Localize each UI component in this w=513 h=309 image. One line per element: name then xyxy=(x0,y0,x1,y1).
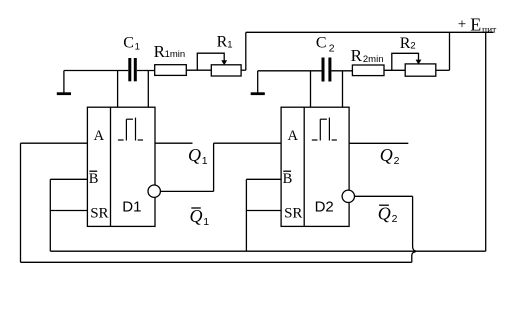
wire lower feedback line xyxy=(21,252,416,262)
capacitor C1 xyxy=(130,58,136,81)
wire +E rail right drop xyxy=(485,32,487,251)
R1 wiper arm xyxy=(197,53,227,70)
svg-text:Q: Q xyxy=(188,145,201,165)
svg-text:пит: пит xyxy=(482,25,497,35)
resistor R2 (rheostat) xyxy=(405,64,436,76)
label Q2 xyxy=(380,145,400,167)
pin D1 top-left xyxy=(117,71,119,108)
svg-text:Q: Q xyxy=(378,203,391,223)
wire outer left vertical xyxy=(20,143,22,262)
svg-text:1min: 1min xyxy=(165,49,186,60)
wire R2 to rail riser xyxy=(436,69,450,71)
wire +E power rail xyxy=(246,31,494,33)
svg-text:2min: 2min xyxy=(363,54,384,65)
pulse symbol D2 xyxy=(312,118,337,141)
pulse symbol D1 xyxy=(118,118,143,141)
wire SR input D2 xyxy=(246,210,281,212)
label Q2-bar xyxy=(378,203,398,225)
capacitor C2 xyxy=(323,58,330,82)
svg-text:B: B xyxy=(89,171,99,187)
svg-text:SR: SR xyxy=(284,205,302,221)
wire A input D1 xyxy=(21,142,88,144)
svg-text:A: A xyxy=(288,128,299,144)
wire C2 to R2min xyxy=(331,70,352,72)
wire C1 to R1min xyxy=(137,70,155,72)
svg-text:SR: SR xyxy=(90,205,108,221)
wire Q2-bar to junction xyxy=(355,196,417,251)
svg-text:Q: Q xyxy=(190,206,203,226)
wire Q1 output stub xyxy=(155,142,193,144)
wire R2min to R2 xyxy=(384,69,405,71)
label Q1 xyxy=(188,145,208,167)
ground GND2 xyxy=(251,71,265,94)
IC D1 block xyxy=(87,107,155,226)
wire upper feedback line xyxy=(50,250,485,252)
resistor R2min xyxy=(352,65,384,76)
svg-text:B: B xyxy=(283,171,293,187)
svg-text:1: 1 xyxy=(135,42,140,53)
wire riser to +E rail xyxy=(245,32,247,70)
svg-text:C: C xyxy=(123,34,134,51)
label B-bar (D1) xyxy=(89,171,99,187)
svg-text:D2: D2 xyxy=(315,199,334,216)
inverter bubble D1 xyxy=(148,185,160,197)
svg-text:R: R xyxy=(400,35,411,52)
label Q1-bar xyxy=(190,206,210,228)
IC D2 block xyxy=(281,107,349,226)
pin D1 top-right xyxy=(147,71,149,108)
wire Q2 output stub xyxy=(349,142,408,144)
svg-text:2: 2 xyxy=(410,41,415,52)
svg-text:E: E xyxy=(470,15,481,35)
label C1 xyxy=(123,34,140,52)
wire Q1-bar to A of D2 xyxy=(160,143,281,191)
svg-text:+: + xyxy=(458,16,466,32)
wire R1min to R1 xyxy=(186,69,211,71)
label R1min xyxy=(154,42,186,61)
svg-text:2: 2 xyxy=(394,155,400,167)
svg-text:A: A xyxy=(94,128,105,144)
wire D2 input vertical to feedback xyxy=(245,179,247,251)
ground GND1 xyxy=(57,71,71,94)
wire GND2 to C2 xyxy=(258,70,322,72)
wire B input D1 xyxy=(50,178,87,180)
svg-text:Q: Q xyxy=(380,145,393,165)
inverter bubble D2 xyxy=(342,190,354,202)
wire riser R2 to +E rail xyxy=(449,32,451,70)
resistor R1min xyxy=(155,65,187,76)
svg-text:2: 2 xyxy=(329,42,335,54)
svg-text:2: 2 xyxy=(392,213,398,225)
label R2 xyxy=(400,35,416,52)
svg-text:R: R xyxy=(351,46,363,65)
svg-text:D1: D1 xyxy=(122,199,141,216)
pin D2 top-right xyxy=(342,71,344,107)
R2 wiper arm xyxy=(392,53,422,70)
svg-text:1: 1 xyxy=(227,39,232,50)
label +Eпит xyxy=(458,15,497,36)
wire inner left vertical xyxy=(49,179,51,251)
wire R1 to rail riser xyxy=(241,69,246,71)
svg-text:C: C xyxy=(316,34,327,51)
label R2min xyxy=(351,46,384,65)
svg-text:1: 1 xyxy=(203,216,209,228)
pin D2 top-left xyxy=(310,71,312,107)
wire SR input D1 xyxy=(50,210,87,212)
label R1 xyxy=(217,34,233,51)
wire GND1 to C1 xyxy=(64,70,128,72)
svg-text:1: 1 xyxy=(202,155,208,167)
label B-bar (D2) xyxy=(283,171,293,187)
wire B input D2 xyxy=(246,178,281,180)
svg-text:R: R xyxy=(217,34,228,51)
label C2 xyxy=(316,34,335,54)
resistor R1 (rheostat) xyxy=(211,65,241,76)
